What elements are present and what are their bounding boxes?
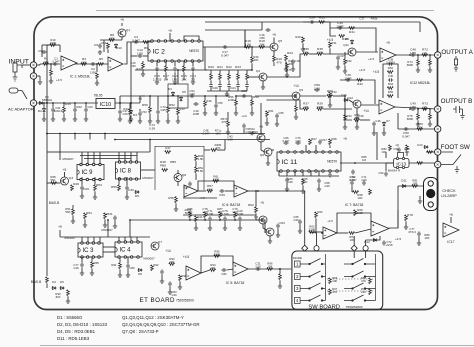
label R57b [221, 117, 228, 124]
label R94 [210, 263, 216, 270]
wire bbd2 bus [130, 219, 265, 221]
resistor R45 82 [63, 107, 66, 113]
resistor R93 [169, 263, 175, 266]
svg-text:1/16: 1/16 [73, 266, 79, 270]
label Q3 [69, 176, 73, 180]
wire [385, 163, 387, 171]
wire [344, 121, 346, 126]
wire IC8 to fb box [141, 169, 155, 171]
wire [349, 100, 354, 103]
label C77 IC3 [73, 263, 79, 270]
resistor R51b 5.6K [195, 167, 198, 173]
wire [47, 44, 60, 46]
label D4 [52, 280, 56, 284]
label Q1 [126, 28, 130, 32]
wire [52, 103, 54, 107]
wire [366, 236, 380, 240]
resistor R79 22K [417, 128, 423, 131]
resistor R54b 68K [387, 87, 393, 90]
capacitor C21 comb [218, 83, 222, 88]
svg-text:D4, D5 : RD3.0EB1: D4, D5 : RD3.0EB1 [57, 329, 96, 334]
supply +4.5 IC12b2 [373, 70, 380, 74]
capacitor C53 [138, 111, 142, 116]
svg-text:D4: D4 [52, 280, 56, 284]
wire bus tap [104, 134, 106, 140]
label R61b [268, 109, 274, 113]
svg-text:D1 : S5566G: D1 : S5566G [57, 315, 83, 320]
svg-text:1/50: 1/50 [137, 52, 143, 56]
ground C68b [317, 187, 321, 191]
wire IC2 pin [156, 61, 158, 66]
junction [74, 133, 76, 135]
wire [142, 69, 144, 73]
svg-text:C39: C39 [358, 114, 364, 118]
svg-text:Q2: Q2 [256, 69, 260, 73]
svg-text:+14: +14 [165, 249, 171, 253]
svg-text:D3: D3 [133, 113, 137, 117]
wire [175, 195, 177, 198]
svg-text:1/50: 1/50 [259, 36, 265, 40]
input jack tip contact [30, 62, 36, 68]
svg-text:C52: C52 [378, 171, 384, 175]
svg-text:OUTPUT B: OUTPUT B [441, 98, 473, 105]
supply +4.5 R31 [327, 38, 334, 42]
op-amp IC12b [379, 100, 395, 114]
label +4.5 IC1a [56, 78, 62, 82]
resistor R3 10K [81, 63, 87, 66]
capacitor C6 [41, 50, 46, 54]
label D3 [133, 113, 137, 117]
resistor R59 [295, 106, 298, 112]
wire [165, 72, 167, 80]
resistor R57 10K [207, 190, 213, 193]
ground R13 [141, 72, 145, 76]
ground C83 [168, 290, 172, 294]
wire [318, 184, 320, 188]
wire IC3 pin feed [93, 237, 95, 243]
wire IC5 feedback [201, 256, 233, 273]
label C9 [94, 43, 98, 47]
label 78L05 [94, 94, 103, 98]
wire comb bus top [207, 69, 248, 71]
wire [81, 257, 83, 262]
svg-text:+9: +9 [449, 213, 453, 217]
wire comb [246, 70, 248, 74]
svg-text:10K: 10K [303, 105, 309, 109]
wire [251, 47, 253, 57]
label C36 [344, 73, 351, 81]
label C27 [339, 54, 345, 58]
transistor Q6 2SC737 [264, 148, 272, 156]
label C38 [386, 58, 395, 65]
wire [130, 103, 132, 109]
wire [39, 64, 41, 65]
wire [383, 127, 385, 132]
label D4b [168, 87, 172, 91]
label C61 [54, 106, 63, 113]
label R75 [407, 114, 414, 121]
wire [294, 171, 296, 176]
svg-text:+14: +14 [293, 84, 299, 88]
label C17 [221, 50, 229, 58]
label R80 [424, 233, 430, 240]
wire to check LED [398, 185, 424, 187]
label MN3007 IC9 [62, 157, 74, 161]
junction [321, 232, 323, 234]
wire [157, 96, 159, 109]
label C53 [141, 110, 147, 114]
capacitor C65b [275, 113, 279, 118]
ground R91 [118, 273, 122, 277]
ground R32 [343, 69, 347, 73]
wire [175, 203, 177, 208]
svg-text:Q1,Q3,Q11,Q12 : 2SK30ATM-Y: Q1,Q3,Q11,Q12 : 2SK30ATM-Y [122, 315, 184, 320]
junction [219, 219, 221, 221]
svg-text:22K: 22K [361, 290, 366, 294]
svg-text:R91: R91 [111, 263, 117, 267]
ground R56 [234, 111, 238, 115]
wire [299, 95, 326, 97]
label R88 [93, 261, 99, 265]
capacitor C68b [317, 178, 321, 183]
wire [177, 96, 179, 109]
label R37 [303, 102, 310, 110]
svg-text:R98: R98 [181, 274, 187, 278]
wire [215, 109, 217, 112]
ground Q2 [261, 85, 265, 89]
wire [261, 150, 265, 152]
label C35 [336, 21, 343, 29]
svg-text:47K: 47K [222, 120, 227, 124]
wire comb [246, 88, 248, 91]
capacitor C19 100P [193, 102, 198, 106]
wire [177, 181, 179, 186]
IC regulator IC10 78L05 [96, 99, 115, 109]
resistor R98 [179, 275, 182, 281]
ground R97 [278, 284, 282, 288]
svg-text:R23: R23 [235, 65, 241, 69]
wire [302, 185, 304, 190]
resistor R94 10K [210, 269, 216, 272]
svg-text:MODE: MODE [293, 256, 302, 260]
capacitor C2 [90, 62, 95, 66]
resistor R37 10K [303, 108, 309, 111]
resistor R66b [354, 210, 357, 216]
ground C9 [98, 50, 102, 54]
resistor R6 100K [143, 41, 149, 44]
ground C7N [223, 226, 227, 230]
wire IC9 pin feed [99, 152, 101, 165]
wire [168, 95, 200, 97]
label R49b [198, 154, 204, 161]
wire IC12b out to jack B [395, 107, 437, 109]
label R22 [226, 65, 232, 69]
wire [139, 109, 141, 111]
svg-text:+4.5: +4.5 [285, 68, 291, 72]
svg-text:C40: C40 [388, 74, 394, 78]
label C63 [279, 221, 285, 225]
svg-text:R55: R55 [388, 90, 394, 94]
svg-text:C21: C21 [230, 86, 236, 90]
ground C81 [160, 279, 164, 283]
svg-text:1/25: 1/25 [189, 92, 195, 96]
svg-text:0.047: 0.047 [221, 54, 229, 58]
SW board outline [292, 251, 383, 310]
label C72 [385, 240, 393, 247]
svg-text:1/16: 1/16 [361, 178, 367, 182]
label MODE [293, 256, 302, 260]
wire [239, 222, 241, 227]
wire [273, 62, 275, 66]
svg-text:Q7,Q8 : 2SA733-P: Q7,Q8 : 2SA733-P [122, 329, 159, 334]
ground R58 [250, 111, 254, 115]
ground R98 [178, 285, 182, 289]
label Q9 [299, 88, 303, 92]
wire IC3-IC4 link2 [103, 251, 115, 253]
junction [130, 102, 132, 104]
wire [72, 215, 74, 220]
ground C13 [173, 80, 177, 84]
resistor R16 1.8K [245, 46, 251, 49]
junction [63, 102, 65, 104]
svg-text:120K: 120K [228, 98, 235, 102]
junction [119, 102, 121, 104]
capacitor C77b 1/16 [80, 262, 84, 267]
svg-text:100K: 100K [316, 105, 324, 109]
svg-text:+9/16: +9/16 [385, 243, 393, 247]
wire sw feed 1 [304, 191, 306, 245]
resistor R68b [329, 139, 332, 145]
label R82 [381, 147, 387, 154]
wire IC12a feedback top [330, 28, 376, 52]
capacitor C73 1/25 [156, 109, 160, 114]
svg-text:560K: 560K [185, 211, 192, 215]
wire [118, 177, 120, 185]
svg-text:C27: C27 [339, 54, 345, 58]
capacitor C56b [113, 215, 117, 220]
resistor R56 120K [235, 100, 238, 106]
label R13 [136, 67, 142, 71]
label R46b [206, 99, 212, 103]
wire [305, 145, 307, 152]
resistor R94b [104, 213, 107, 219]
capacitor C80 [126, 263, 130, 268]
label R35 [319, 16, 325, 20]
label R47b [165, 146, 171, 150]
svg-text:7520052000: 7520052000 [176, 299, 194, 303]
svg-text:1.5K: 1.5K [198, 157, 204, 161]
wire [227, 116, 229, 121]
svg-text:0.018: 0.018 [222, 212, 229, 216]
wire to SW board mode node [258, 190, 305, 192]
svg-text:IC 11: IC 11 [282, 159, 298, 166]
label R68 [357, 193, 363, 200]
label Q11 [343, 43, 349, 47]
svg-text:R67: R67 [311, 137, 317, 141]
label C64 [249, 127, 255, 134]
wire [417, 66, 419, 69]
svg-text:Q8: Q8 [182, 173, 186, 177]
wire long input-side vertical [130, 42, 132, 103]
wire [323, 53, 349, 55]
svg-text:R54: R54 [86, 211, 92, 215]
svg-text:470P: 470P [207, 212, 214, 216]
supply +9 IC17 [449, 213, 453, 217]
label C82 [221, 272, 227, 276]
resistor R63 220K [309, 231, 315, 234]
op-amp IC6a [184, 185, 198, 197]
wire [329, 48, 331, 54]
switch gang link 2 [327, 290, 373, 292]
wire left drop [129, 220, 131, 237]
svg-text:R33: R33 [331, 90, 337, 94]
wire lfo bus left [120, 95, 150, 97]
wire [299, 225, 301, 230]
label R44 [123, 107, 129, 111]
label C19 [193, 109, 200, 116]
wire [104, 219, 106, 224]
label R48 PB8 [160, 160, 166, 168]
label C26 [309, 16, 315, 20]
resistor R18 10K [259, 46, 265, 49]
svg-text:0.0039: 0.0039 [386, 61, 395, 65]
wire [330, 28, 336, 36]
resistor R75 680K [417, 114, 420, 120]
wire [47, 151, 60, 153]
label R6 [144, 46, 148, 50]
resistor R32 [344, 59, 347, 65]
capacitor C83 [168, 281, 172, 286]
ground D2 [42, 117, 46, 121]
resistor R88 [91, 262, 94, 268]
capacitor C30b 0.018 [188, 181, 192, 186]
ground R46b [203, 111, 207, 115]
junction [130, 102, 132, 104]
wire [100, 39, 122, 41]
label R67 sw [332, 287, 338, 294]
wire bbd clock bus [60, 151, 150, 153]
rotary switch S2b [344, 271, 376, 277]
supply +9 Q4 [260, 201, 264, 205]
label R31 [331, 41, 337, 45]
svg-text:R22: R22 [226, 65, 232, 69]
resistor bbd2 bias [219, 212, 222, 218]
svg-text:R43: R43 [179, 107, 185, 111]
svg-text:R21: R21 [217, 65, 223, 69]
resistor R76 [429, 60, 432, 66]
diode D10 [115, 44, 118, 49]
wire clock drop [107, 220, 109, 237]
junction [96, 63, 98, 65]
wire [251, 63, 253, 70]
wire [351, 191, 354, 193]
svg-text:47/6.3: 47/6.3 [408, 230, 416, 234]
wire clock loop 3 [84, 158, 131, 160]
resistor R46b [204, 101, 207, 107]
ground R54 [83, 223, 87, 227]
junction [234, 219, 236, 221]
switch gang link 1 [327, 278, 373, 280]
capacitor C13 [173, 66, 177, 71]
resistor bbd2 bias [234, 212, 237, 218]
svg-text:0.047: 0.047 [402, 135, 410, 139]
wire [373, 127, 375, 132]
wire IC8 pin feed [124, 152, 126, 162]
junction [46, 133, 48, 135]
frame edge line bottom [40, 345, 474, 347]
capacitor C38 0.0039 [388, 62, 393, 66]
transistor Q2 2SC737 [259, 73, 267, 81]
label R33 [331, 90, 337, 94]
label C39 [358, 114, 364, 118]
wire [429, 120, 431, 123]
svg-text:C65: C65 [278, 111, 284, 115]
wire [260, 141, 262, 150]
wire [227, 269, 233, 270]
svg-text:AC ADAPTOR: AC ADAPTOR [8, 107, 34, 112]
svg-text:R5: R5 [99, 57, 103, 61]
junction [156, 69, 158, 71]
wire [360, 104, 379, 106]
wire IC8 pin feed [136, 152, 138, 162]
ground check [418, 199, 422, 203]
wire [140, 96, 145, 103]
wire [84, 219, 86, 224]
label R38 [316, 47, 324, 55]
svg-text:R62: R62 [248, 203, 254, 207]
op-amp IC17 [443, 223, 459, 237]
wire IC6 feedback [198, 181, 234, 191]
capacitor C26 [309, 20, 314, 24]
svg-text:Q2,Q4,Q5,Q6,Q9,Q10 : 2SC737TM-: Q2,Q4,Q5,Q6,Q9,Q10 : 2SC737TM-GR [122, 322, 200, 327]
label C1 [53, 57, 60, 64]
supply +4.5 IC5 [183, 255, 190, 259]
svg-text:R34: R34 [346, 114, 352, 118]
wire comb feed [204, 47, 206, 70]
label R48b [215, 143, 222, 150]
wire IC11 bottom bus [279, 175, 339, 177]
label C30b [183, 185, 189, 189]
svg-text:IC 7: BA718: IC 7: BA718 [345, 203, 363, 207]
diode D11 RD5.1 [402, 185, 407, 188]
svg-text:R53b: R53b [106, 212, 113, 216]
label R68c [50, 175, 56, 182]
wire IC4 pin feed [118, 237, 120, 242]
label C29 [83, 187, 89, 191]
wire IC3-IC4 link [103, 246, 115, 248]
transistor Q9 2SC737 [292, 92, 300, 100]
wire [225, 190, 234, 192]
svg-text:Q1: Q1 [126, 28, 130, 32]
capacitor C1 0.047 [52, 62, 57, 66]
supply +9 IC12a [386, 41, 390, 45]
label C12 [137, 48, 143, 56]
label C58 [241, 89, 247, 93]
label R83 [404, 147, 410, 154]
label C37 [359, 17, 365, 21]
wire [129, 103, 131, 109]
svg-text:R46: R46 [206, 99, 212, 103]
wire [217, 149, 225, 151]
resistor R24 10K [285, 55, 288, 61]
label R16 [245, 39, 252, 47]
wire [204, 96, 206, 101]
wire IC1a fb [59, 45, 61, 52]
capacitor C17 0.047 [222, 45, 227, 49]
wire long horizontal bus y133 [46, 133, 265, 135]
ground R90 [66, 299, 70, 303]
output A jack [435, 52, 441, 58]
